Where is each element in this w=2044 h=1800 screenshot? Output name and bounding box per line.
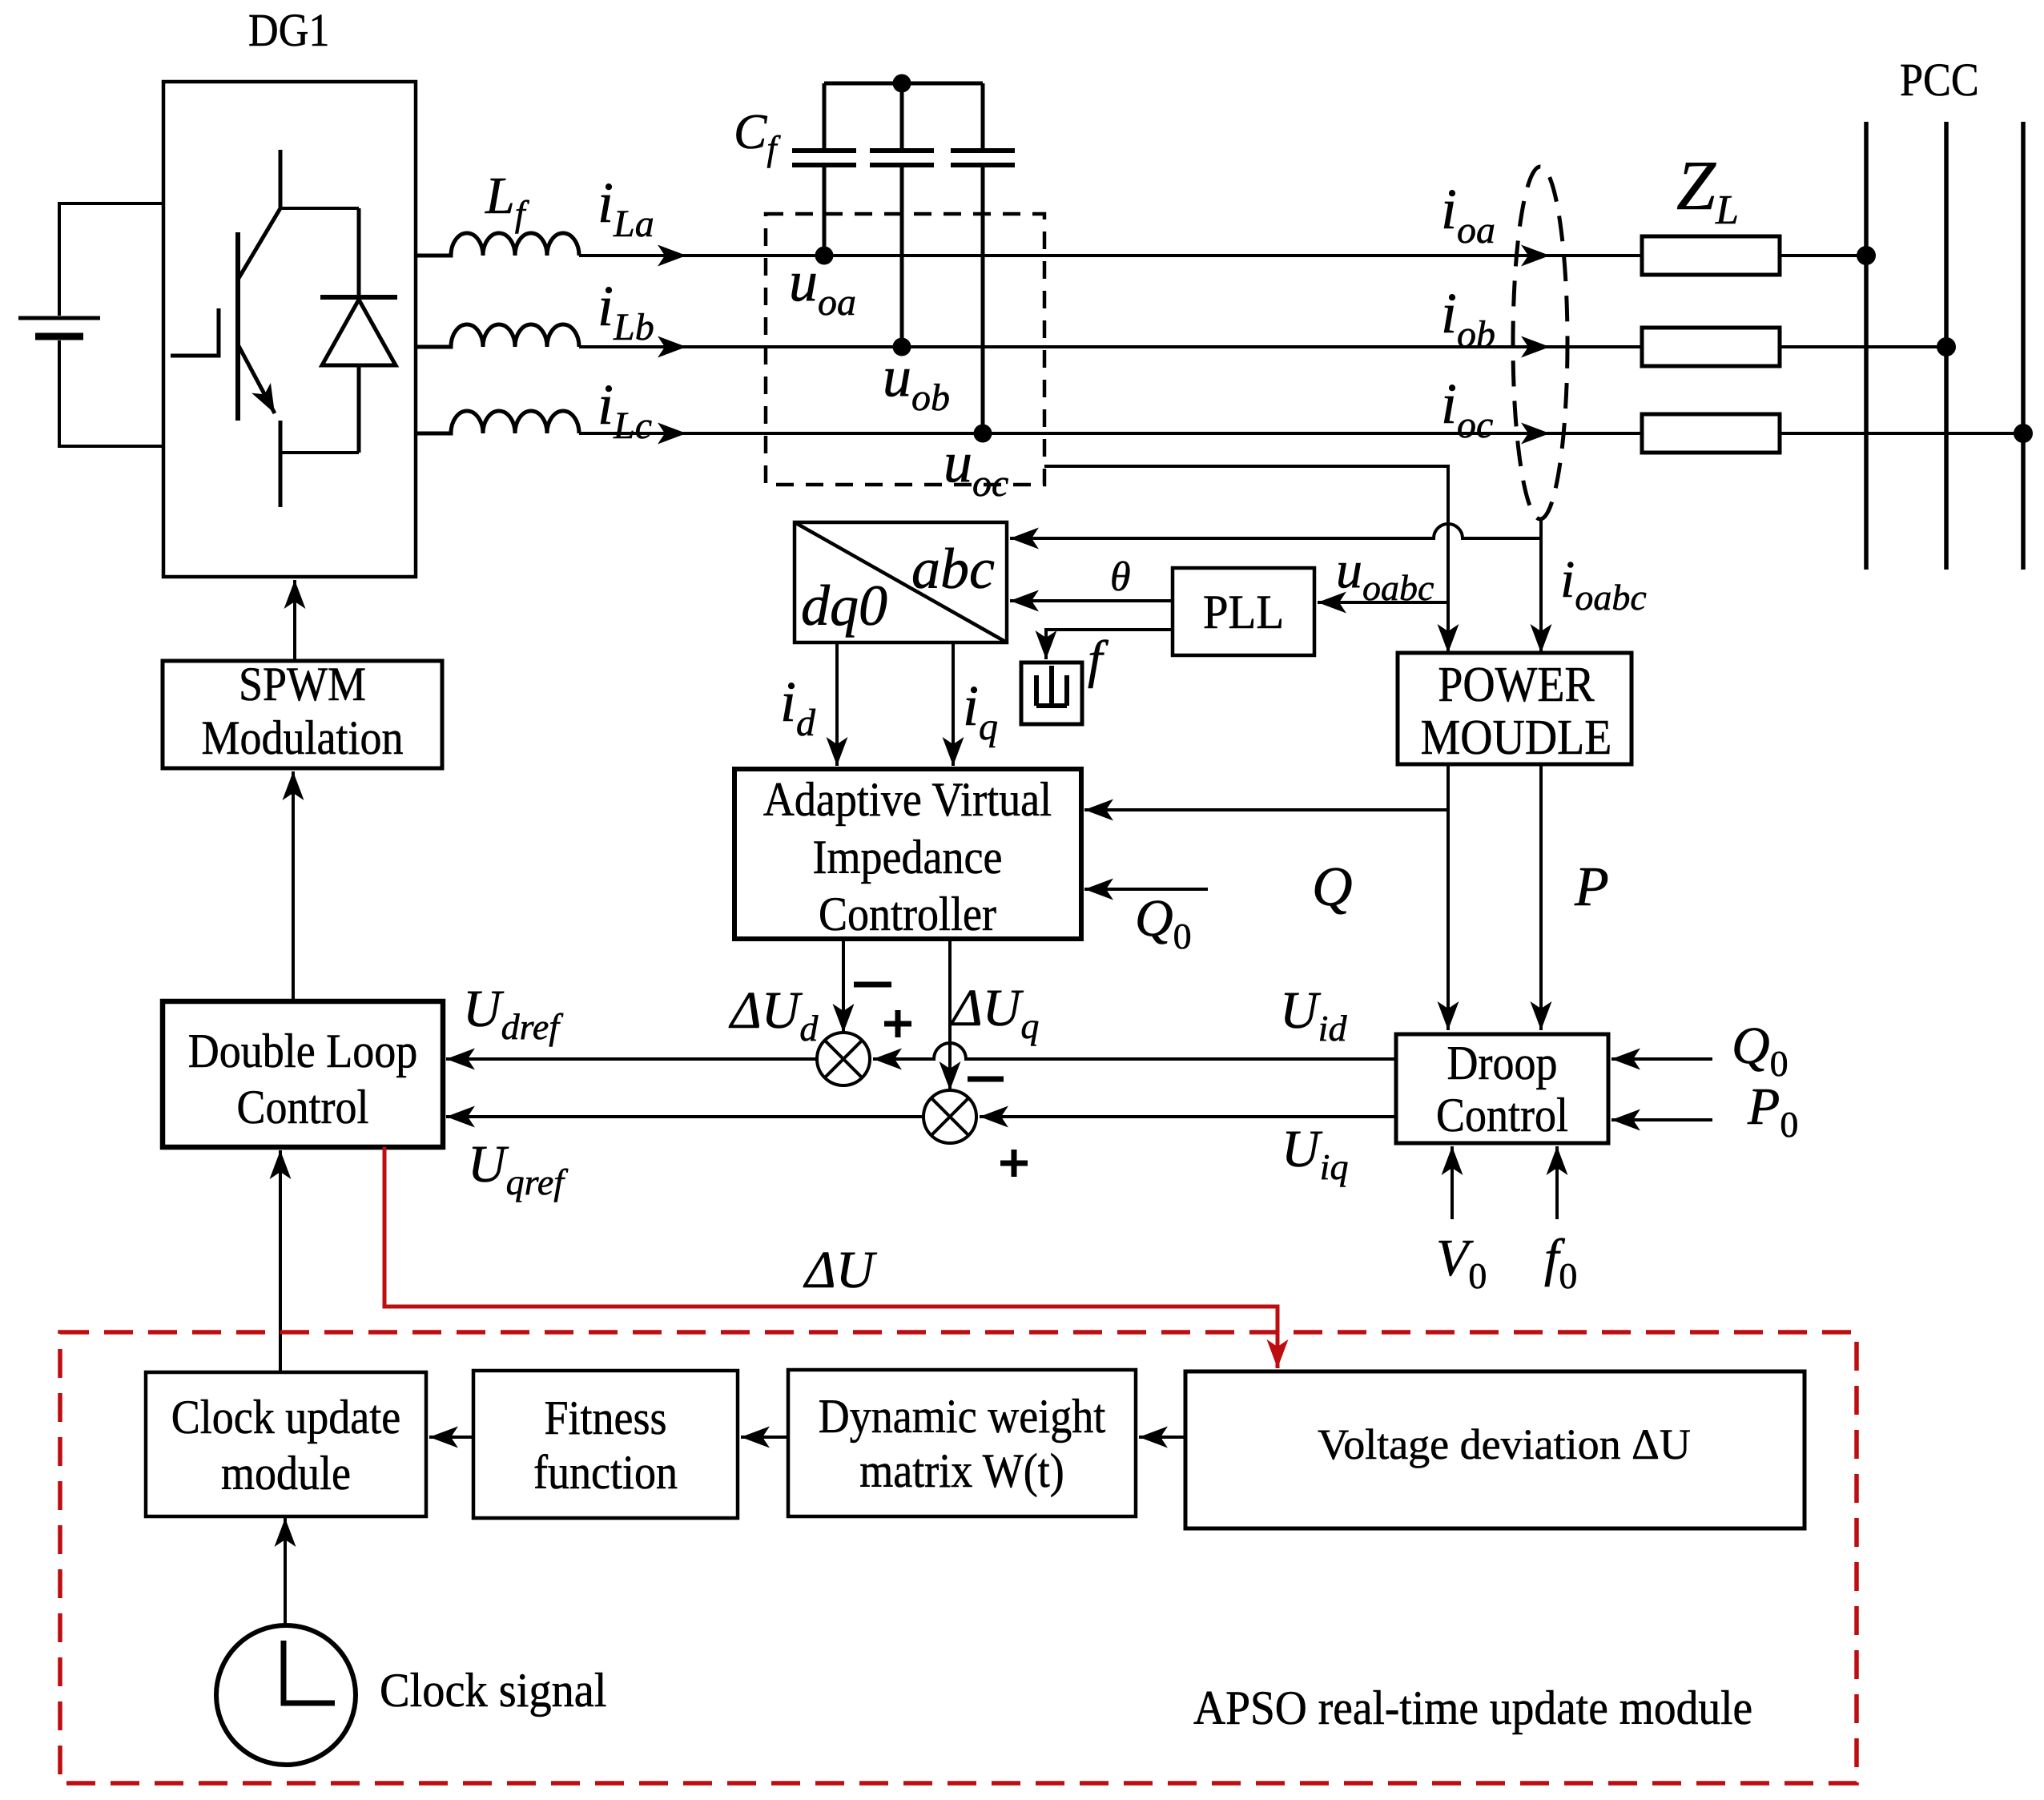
svg-text:Clock update: Clock update xyxy=(171,1391,400,1444)
wire cap drop c xyxy=(981,83,985,151)
diode D1 cathode bar xyxy=(320,295,397,300)
minus sign junction 1 xyxy=(854,982,891,988)
svg-text:APSO real-time update module: APSO real-time update module xyxy=(1193,1681,1752,1734)
plus sign junction 1 xyxy=(884,1010,911,1037)
wire Q0 into droop xyxy=(1611,1057,1712,1061)
PCC bus bar 3 xyxy=(2021,122,2026,570)
frequency meter box xyxy=(1021,662,1082,724)
Dynamic weight matrix block xyxy=(788,1370,1136,1516)
wire phase c to load xyxy=(579,432,2023,435)
wire phase a to load xyxy=(579,254,1866,257)
junction node uob xyxy=(893,338,911,356)
clock hands xyxy=(284,1641,335,1703)
capacitor Cf b xyxy=(870,151,934,165)
junction dot phase b bus xyxy=(1937,337,1956,356)
svg-text:SPWM: SPWM xyxy=(239,658,366,711)
APSO red dashed box xyxy=(60,1332,1857,1783)
wire clock update module to DLC xyxy=(279,1150,282,1372)
wire SPWM to inverter xyxy=(293,580,296,661)
wire phase b to load xyxy=(579,345,1946,348)
svg-text:Impedance: Impedance xyxy=(813,831,1003,884)
wire dynamic weight to fitness xyxy=(741,1436,788,1439)
svg-text:Dynamic weight: Dynamic weight xyxy=(819,1390,1106,1443)
wire uoabc sense line xyxy=(1044,466,1448,653)
plus sign junction 2 xyxy=(1000,1150,1028,1177)
wire dUq output with hop xyxy=(948,939,952,1090)
svg-text:Controller: Controller xyxy=(819,888,996,940)
battery B1 plate long xyxy=(18,316,100,320)
wire Q feedback to AVIC xyxy=(1084,808,1448,811)
wire P0 into droop xyxy=(1611,1118,1712,1121)
wire cap c to phase c xyxy=(981,165,985,433)
wire capacitor top bus xyxy=(824,82,983,86)
wire uoabc branch to PLL xyxy=(1318,601,1448,604)
voltage sense dashed box xyxy=(766,214,1044,485)
transistor Q1 IGBT bar xyxy=(235,232,240,421)
svg-text:Voltage deviation ΔU: Voltage deviation ΔU xyxy=(1318,1420,1691,1468)
Voltage deviation block xyxy=(1185,1371,1805,1528)
arrow iLa xyxy=(658,245,686,267)
arrow iLb xyxy=(658,336,686,358)
wire clock to clock update module xyxy=(284,1518,287,1625)
summing junction 2 xyxy=(923,1090,976,1143)
svg-text:DG1: DG1 xyxy=(248,4,330,56)
inductor Lf phase c xyxy=(416,411,579,433)
inverter U1 box xyxy=(163,82,416,577)
PLL block xyxy=(1173,568,1314,655)
Droop Control block xyxy=(1396,1034,1608,1143)
wire Uiq from droop to junction 2 xyxy=(980,1115,1398,1118)
Double Loop Control block xyxy=(163,1001,443,1147)
junction dot phase a bus xyxy=(1857,246,1876,265)
abc/dq0 diagonal xyxy=(795,522,1007,642)
inductor Lf phase b xyxy=(416,324,579,347)
wire ioabc from ellipse xyxy=(1539,521,1543,653)
arrow ioc xyxy=(1521,423,1550,445)
resistor ZL phase c xyxy=(1642,414,1780,453)
transistor Q1 IGBT gate lead xyxy=(171,308,219,356)
junction dot top bus xyxy=(893,74,911,93)
wire dUd output to summing junction 1 xyxy=(842,939,845,1033)
arrow iLc xyxy=(658,423,686,445)
PCC bus bar 2 xyxy=(1944,122,1949,570)
svg-text:Control: Control xyxy=(1436,1089,1568,1142)
frequency meter glyph xyxy=(1036,666,1067,706)
svg-text:function: function xyxy=(533,1446,678,1499)
wire Uqref junction 2 to DLC xyxy=(446,1115,923,1118)
diode D1 triangle xyxy=(322,300,396,365)
wire Uid from droop to junction 1 xyxy=(873,1043,1398,1059)
arrow iob xyxy=(1521,336,1550,358)
wire IGBT bottom rail to diode xyxy=(280,451,359,454)
wire IGBT top rail to diode xyxy=(280,207,359,210)
wire cap a to phase a xyxy=(823,165,827,256)
Fitness function block xyxy=(473,1371,738,1518)
svg-text:module: module xyxy=(221,1447,351,1500)
summing junction 1 xyxy=(817,1033,870,1085)
transistor Q1 IGBT emitter lead with arrow xyxy=(238,344,275,413)
capacitor Cf c xyxy=(951,151,1015,165)
svg-text:P: P xyxy=(1574,856,1609,918)
svg-text:Fitness: Fitness xyxy=(545,1391,667,1444)
dashed measurement ellipse xyxy=(1513,167,1567,519)
wire V0 into droop xyxy=(1451,1146,1454,1219)
junction node uoa xyxy=(815,247,834,265)
wire cap drop b xyxy=(900,83,904,151)
wire f from PLL xyxy=(1046,630,1173,659)
wire DLC to SPWM xyxy=(292,771,295,1001)
wire iq output xyxy=(952,642,955,766)
wire P from power module to droop xyxy=(1539,764,1543,1030)
resistor ZL phase b xyxy=(1642,328,1780,366)
svg-text:matrix W(t): matrix W(t) xyxy=(859,1444,1064,1497)
PCC bus bar 1 xyxy=(1864,122,1869,570)
Clock update module block xyxy=(146,1372,426,1516)
transistor Q1 IGBT emitter bottom lead xyxy=(279,421,283,507)
wire battery negative to inverter xyxy=(59,340,163,446)
wire id output xyxy=(835,642,839,766)
wire Q from power module to droop xyxy=(1446,764,1450,1030)
capacitor Cf a xyxy=(792,151,856,165)
svg-text:Q: Q xyxy=(1312,856,1353,918)
svg-text:PLL: PLL xyxy=(1203,586,1284,638)
svg-text:Clock signal: Clock signal xyxy=(380,1664,607,1717)
diode D1 anode lead xyxy=(357,365,361,453)
svg-text:Double Loop: Double Loop xyxy=(188,1025,418,1077)
wire voltage deviation to dynamic weight xyxy=(1139,1436,1185,1439)
Adaptive Virtual Impedance Controller block xyxy=(734,769,1081,939)
svg-text:abc: abc xyxy=(911,537,995,601)
diode D1 cathode lead xyxy=(357,208,361,297)
junction node uoc xyxy=(974,425,992,443)
junction dot phase c bus xyxy=(2014,424,2033,443)
svg-text:Adaptive Virtual: Adaptive Virtual xyxy=(763,773,1052,826)
svg-text:Droop: Droop xyxy=(1447,1037,1558,1089)
wire cap b to phase b xyxy=(900,165,904,347)
wire Q0 into AVIC xyxy=(1084,888,1208,891)
wire battery positive to inverter xyxy=(59,203,163,316)
clock symbol circle xyxy=(216,1625,356,1765)
wire theta PLL to abc block xyxy=(1010,599,1173,602)
abc/dq0 transform block xyxy=(795,522,1007,642)
POWER MOUDLE block xyxy=(1398,653,1632,764)
inductor Lf phase a xyxy=(416,233,579,256)
wire cap drop a xyxy=(823,83,827,151)
wire fitness to clock update xyxy=(429,1436,473,1439)
SPWM Modulation block xyxy=(163,661,442,768)
svg-text:MOUDLE: MOUDLE xyxy=(1421,711,1612,765)
svg-text:Modulation: Modulation xyxy=(202,711,404,764)
svg-text:dq0: dq0 xyxy=(801,574,887,638)
minus sign junction 2 xyxy=(968,1077,1004,1082)
transistor Q1 IGBT collector lead xyxy=(238,150,280,280)
svg-text:Control: Control xyxy=(237,1081,369,1134)
battery B1 plate short xyxy=(35,333,83,340)
svg-text:θ: θ xyxy=(1110,554,1131,600)
wire ioabc branch to abc block with hop xyxy=(1010,524,1541,538)
svg-text:POWER: POWER xyxy=(1438,658,1595,712)
svg-text:ΔU: ΔU xyxy=(803,1241,878,1299)
resistor ZL phase a xyxy=(1642,236,1780,275)
svg-text:PCC: PCC xyxy=(1900,54,1979,106)
wire f0 into droop xyxy=(1555,1146,1559,1219)
red wire dU from DLC to voltage deviation xyxy=(384,1147,1277,1368)
arrow ioa xyxy=(1521,245,1550,267)
wire Udref junction 1 to DLC xyxy=(446,1057,817,1061)
